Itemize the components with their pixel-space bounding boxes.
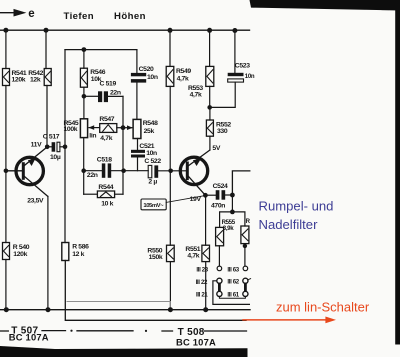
wire top supply bus [0, 29, 250, 31]
box 105mV [141, 196, 205, 210]
svg-text:C 519: C 519 [100, 81, 117, 88]
resistor R544 [84, 184, 123, 207]
svg-text:III 23: III 23 [196, 267, 208, 274]
label T 508 [178, 327, 205, 338]
scan edge bottom bar [0, 346, 248, 357]
jumper 22-21 [218, 283, 221, 292]
svg-text:e: e [28, 8, 34, 20]
node T508 collector junction [203, 193, 208, 198]
svg-text:105mV~: 105mV~ [143, 203, 164, 209]
capacitor C520 [131, 66, 158, 83]
pin III 22 [196, 278, 222, 286]
svg-text:C521: C521 [139, 143, 154, 150]
svg-text:120k: 120k [13, 251, 27, 258]
wire signal node to R550 [169, 171, 171, 245]
svg-text:Nadelfilter: Nadelfilter [259, 217, 319, 232]
resistor R540 [3, 243, 30, 260]
wire C524 node down [231, 195, 233, 212]
svg-text:lin: lin [89, 133, 96, 140]
wire R542 column top [45, 30, 47, 68]
wire T507 collector to bottom bus [47, 196, 49, 309]
wire R541 column top [5, 30, 7, 68]
node Tiefen top junction [82, 47, 87, 52]
wiper arrow to R548 [123, 125, 133, 130]
svg-text:C524: C524 [213, 183, 228, 190]
capacitor C521 [131, 143, 157, 158]
wire R553 column top [209, 30, 211, 66]
svg-text:4,7k: 4,7k [187, 253, 199, 260]
transistor T508 [180, 150, 210, 203]
node C524 right junction [230, 193, 235, 198]
svg-text:4,7k: 4,7k [190, 91, 202, 98]
svg-text:12k: 12k [30, 77, 41, 84]
wire C522 to base T508 [158, 170, 186, 172]
svg-text:R549: R549 [176, 68, 191, 75]
svg-text:R547: R547 [99, 116, 114, 123]
wire zum lin-Schalter red arrow [243, 317, 336, 324]
input arrow e [0, 8, 35, 20]
wire pin21 to pin61 [219, 297, 245, 299]
pin III 62 [227, 278, 250, 285]
wiper arrow to R545 [88, 125, 99, 130]
resistor R586 [62, 243, 89, 261]
wire R545 down [83, 138, 85, 195]
svg-text:III 22: III 22 [196, 279, 208, 286]
pin III 61 [227, 291, 248, 298]
label zum lin-Schalter [276, 300, 370, 315]
pin III 21 [196, 291, 222, 298]
svg-text:III 63: III 63 [227, 267, 239, 274]
potentiometer R547 [99, 116, 116, 142]
svg-text:25k: 25k [144, 128, 155, 135]
svg-text:10 k: 10 k [101, 200, 113, 207]
wire R555 R556 tee [220, 212, 245, 228]
svg-text:4,7k: 4,7k [177, 76, 189, 83]
node R555 top junction [230, 210, 235, 215]
label Hoehen [114, 11, 146, 22]
wire R549 to signal node [169, 86, 171, 170]
node signal left junction [81, 168, 86, 173]
node base T507 [4, 169, 9, 174]
capacitor C523 [228, 63, 255, 83]
potentiometer R548 [133, 119, 158, 138]
wire signal line left [84, 170, 102, 172]
wire R541 to base node [5, 86, 7, 171]
capacitor C519 [84, 81, 123, 103]
wire R586 to lin line [65, 261, 246, 321]
svg-text:22n: 22n [87, 172, 98, 179]
wire R553 to node [209, 86, 211, 107]
scan edge top bar [250, 0, 400, 11]
svg-text:2 µ: 2 µ [148, 178, 157, 185]
pin III 23 [196, 266, 221, 273]
svg-text:R546: R546 [90, 69, 105, 76]
wire node to R552 [209, 107, 211, 120]
wire R552 to T508 emitter [209, 136, 211, 150]
svg-text:10n: 10n [245, 73, 255, 80]
wire signal line mid [111, 170, 148, 172]
svg-text:R548: R548 [143, 120, 158, 127]
node C519 junction [82, 94, 87, 99]
svg-text:23,5V: 23,5V [27, 198, 44, 205]
wire R548 to C521 [137, 139, 139, 150]
svg-text:12 k: 12 k [72, 251, 84, 258]
svg-text:R 586: R 586 [72, 244, 89, 251]
svg-text:100k: 100k [64, 126, 78, 133]
resistor R555 [216, 219, 236, 246]
resistor R550 [147, 245, 174, 261]
wire pin22 to lin line [213, 281, 250, 305]
svg-text:III 21: III 21 [196, 292, 208, 299]
wire R550 to bottom bus [169, 262, 171, 310]
svg-text:C523: C523 [235, 63, 250, 70]
capacitor C518 [87, 156, 112, 179]
wire R546 to R545 [83, 87, 85, 119]
svg-text:4,7k: 4,7k [100, 135, 112, 142]
label 5V [212, 145, 220, 152]
node R556 bottom junction [243, 244, 247, 248]
node top bus junctions [3, 28, 237, 33]
node R552 top junction [207, 105, 212, 110]
node C518 right junction [121, 168, 126, 173]
svg-text:BC 107A: BC 107A [176, 337, 216, 348]
wire R542 to node 11V [46, 86, 48, 147]
wire R551 to bottom bus [205, 262, 207, 310]
potentiometer R545 [64, 119, 97, 140]
svg-text:Tiefen: Tiefen [64, 11, 94, 22]
wire C519 right down to wiper node [122, 96, 124, 194]
pin III 63 [227, 266, 247, 273]
divider dash-dot line [0, 330, 247, 332]
wire C523 column top [234, 31, 236, 73]
svg-text:BC 107A: BC 107A [9, 332, 49, 343]
svg-text:C520: C520 [139, 66, 154, 73]
wire Tiefen box top [65, 49, 137, 51]
capacitor C522 [144, 158, 161, 186]
svg-text:150k: 150k [149, 254, 163, 261]
capacitor C517 [43, 133, 65, 160]
wire R549 column top [169, 30, 171, 66]
svg-text:zum lin-Schalter: zum lin-Schalter [276, 300, 370, 315]
resistor R553 [188, 66, 214, 98]
svg-text:C 522: C 522 [144, 158, 161, 165]
resistor R549 [166, 66, 191, 86]
svg-text:10µ: 10µ [50, 154, 61, 161]
divider dots [70, 330, 147, 332]
svg-text:5V: 5V [212, 145, 220, 152]
capacitor C524 [205, 183, 232, 210]
node 11V junction [45, 145, 50, 150]
svg-text:3,9k: 3,9k [223, 225, 234, 232]
wire to Rumpelfilter stub [232, 171, 249, 195]
svg-text:III 62: III 62 [227, 279, 239, 286]
svg-text:C518: C518 [97, 156, 112, 163]
wire C521 to signal line [137, 158, 139, 171]
resistor R541 [3, 69, 27, 86]
label T 507 [11, 326, 38, 337]
node C517 right junction [63, 145, 68, 150]
svg-text:10n: 10n [147, 74, 158, 81]
label Tiefen [64, 11, 94, 22]
scan edge right bar [395, 0, 400, 345]
wire collector node to R551 [205, 195, 207, 245]
node R547 wiper junction [121, 125, 126, 130]
svg-text:120k: 120k [12, 77, 26, 84]
jumper 62-61 [244, 283, 247, 292]
svg-text:III 61: III 61 [227, 292, 239, 299]
wire R547 to node [117, 127, 123, 129]
svg-text:R544: R544 [98, 184, 113, 191]
svg-text:Rumpel- und: Rumpel- und [259, 198, 334, 213]
wire bottom bus [0, 309, 250, 311]
label Rumpel- und Nadelfilter [259, 198, 334, 231]
resistor R556 [241, 218, 251, 243]
resistor R551 [185, 245, 209, 261]
node bottom bus junctions [4, 307, 208, 312]
wire C520 to R548 [136, 83, 138, 120]
resistor R542 [28, 69, 51, 86]
label BC 107A left [9, 332, 49, 343]
transistor T507 [6, 147, 48, 205]
node base T508 junction [168, 169, 173, 174]
wire base node down [5, 171, 7, 243]
svg-text:470n: 470n [211, 203, 225, 210]
wire Hoehen column [136, 50, 138, 73]
label 11V [31, 141, 42, 148]
svg-text:11V: 11V [31, 141, 42, 148]
svg-text:22n: 22n [110, 90, 121, 97]
svg-text:10n: 10n [146, 150, 157, 157]
svg-text:C 517: C 517 [43, 133, 60, 140]
wire R586 branch to bus [67, 302, 170, 310]
resistor R546 [80, 68, 105, 87]
wire Tiefen feed vertical x65 [64, 50, 66, 243]
svg-text:Höhen: Höhen [114, 11, 146, 22]
svg-text:330: 330 [217, 128, 228, 135]
wire to R546 [83, 50, 85, 69]
label BC 107A right [176, 337, 216, 348]
wire R555 to pin 23 [218, 246, 220, 266]
wire R556 to pin 63 [244, 244, 246, 266]
resistor R552 [206, 120, 231, 136]
wire R540 to bottom bus [5, 260, 7, 310]
wire C523 bottom to node [210, 82, 236, 107]
